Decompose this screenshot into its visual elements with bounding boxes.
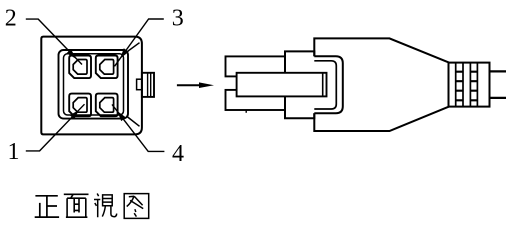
blade terminal [237, 73, 327, 97]
socket inner C [314, 61, 336, 109]
leader 1 [26, 104, 85, 151]
main body lower outline [314, 107, 449, 131]
arrowhead leader 2 [67, 49, 77, 59]
svg-text:4: 4 [172, 141, 184, 167]
blade tip line [322, 73, 324, 97]
pin 3 (top-right) [96, 56, 118, 79]
bevel bottom-right [127, 117, 140, 127]
arrowhead leader 4 [117, 111, 126, 121]
leader 3 [115, 19, 164, 66]
socket outer C [314, 56, 343, 113]
boot ladder rungs [456, 72, 478, 101]
shell outline [41, 37, 142, 135]
glyph 面 [64, 194, 89, 217]
wire 1 [490, 70, 506, 72]
svg-text:3: 3 [172, 6, 184, 32]
glyph 正 [35, 196, 59, 217]
svg-text:1: 1 [8, 139, 20, 165]
arrowhead leader 3 [120, 48, 129, 58]
bottom prong [226, 90, 286, 110]
bevel top-right [127, 43, 140, 52]
latch tab [142, 73, 154, 97]
side view [226, 38, 506, 131]
pin 2 (top-left) [69, 56, 91, 79]
connector front view: outer shell [41, 37, 154, 135]
top prong [226, 56, 286, 76]
arrowhead leader 1 [70, 110, 79, 120]
cable boot block [449, 63, 490, 107]
big arrow between views [177, 82, 214, 88]
glyph 视 [94, 194, 117, 218]
leader 4 [112, 104, 164, 151]
glyph 图 [124, 194, 149, 219]
latch slot inside shell [137, 79, 142, 90]
terminal barb tick [245, 110, 247, 113]
svg-text:2: 2 [5, 5, 17, 31]
housing inner wall [64, 54, 124, 115]
main body upper outline [314, 38, 449, 62]
caption 正面视图 [35, 194, 149, 219]
pin number labels [5, 5, 184, 167]
boot rib verticals [456, 63, 478, 107]
mid body [285, 51, 314, 118]
leader 2 [26, 19, 82, 64]
latch tab inner lines [148, 73, 151, 97]
leader lines and labels [26, 19, 165, 151]
wire 2 [490, 97, 506, 99]
housing outer [59, 50, 129, 119]
pin 1 (bottom-left) [69, 94, 91, 117]
pin 4 (bottom-right) [96, 94, 118, 117]
